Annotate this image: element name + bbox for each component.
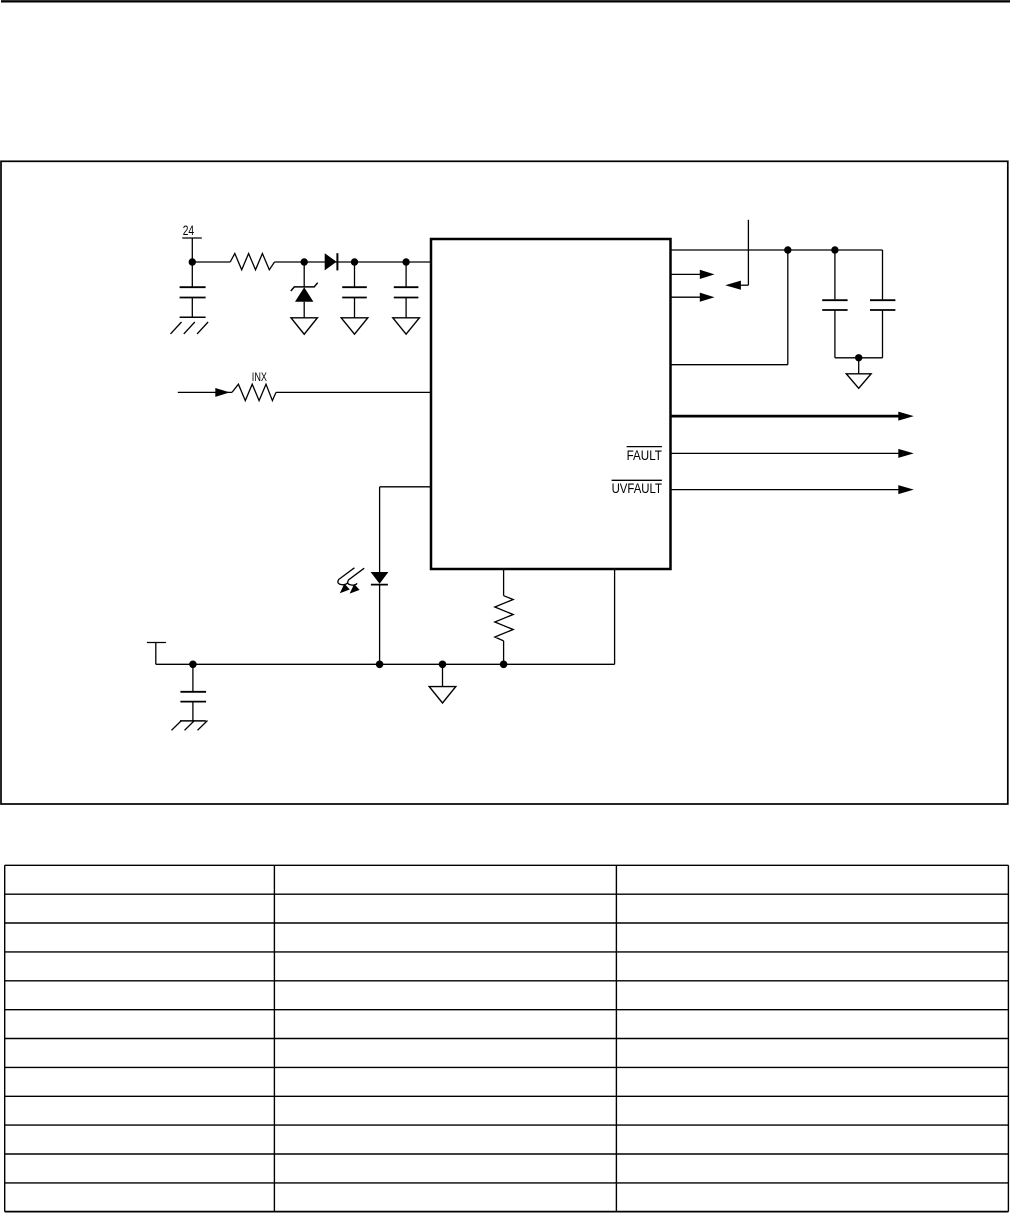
svg-text:INX: INX [252,370,267,384]
svg-text:24: 24 [183,223,195,238]
svg-text:UVFAULT: UVFAULT [612,481,663,496]
svg-text:FAULT: FAULT [627,448,663,463]
